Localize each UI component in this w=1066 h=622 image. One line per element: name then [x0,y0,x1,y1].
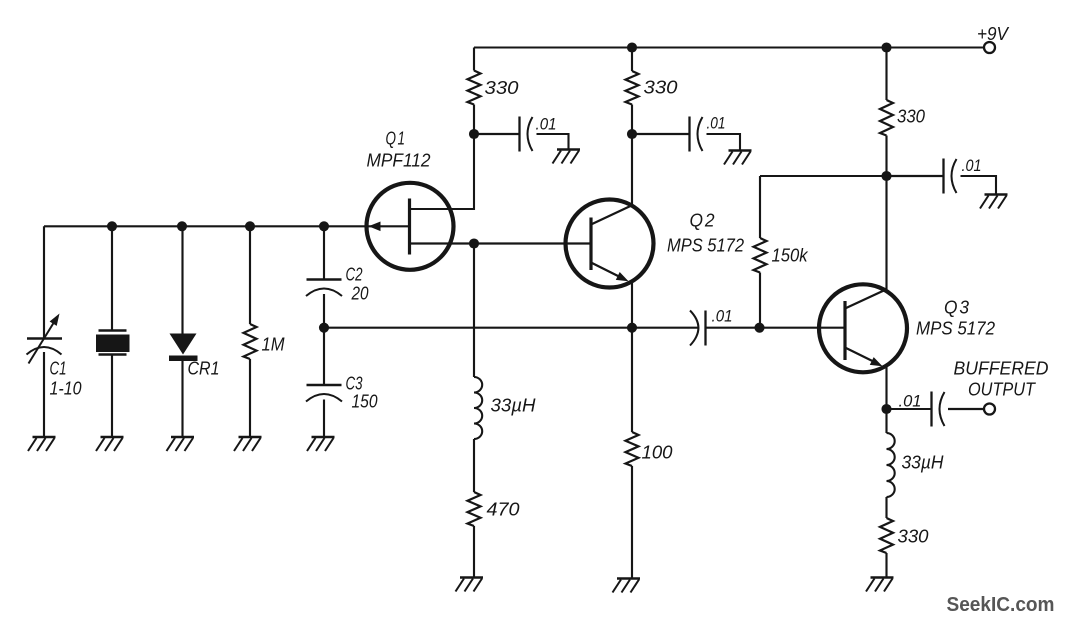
ground CR1 [167,437,195,451]
diode CR1 [169,334,198,362]
label CR1 [188,359,220,379]
svg-text:Q2: Q2 [690,211,717,231]
label Q3 MPS5172 [916,319,995,339]
label C7 .01 [962,156,982,175]
node Q1 source junction [469,238,479,248]
C1 arrow head [50,314,60,326]
svg-text:1M: 1M [262,335,285,355]
wire L1 to R5 [473,439,475,492]
wire Q1 source to Q2 base [474,242,591,244]
ground C6 [724,151,752,165]
label OUTPUT [968,380,1037,400]
transistor Q3 circle [819,284,907,372]
Q1 source lead [410,242,475,244]
wire rail corner to R1 [473,48,475,71]
wire emitter to L2 [885,409,887,433]
wire node to C7 [887,175,944,177]
wire Q1 drain [410,134,475,209]
wire R6 top [759,176,761,238]
resistor R5 470 [468,492,481,526]
wire bus to CR1 [181,226,183,334]
transistor Q1 circle [367,183,454,270]
label C5 .01 [712,307,733,326]
wire Q2 collector [631,134,633,206]
label L2 33µH [902,453,945,473]
Q1 gate wire [367,225,410,227]
ground crystal [96,437,124,451]
wire C1 to ground [43,352,45,437]
wire Q3 collector [885,176,887,291]
label R2 330 [644,78,678,98]
svg-text:.01: .01 [899,392,922,411]
label R6 150k [772,246,809,266]
wire node to C4 [474,133,519,135]
label C2 [346,265,363,285]
node bus-CR1 [177,221,187,231]
Q3 emitter arrow [870,357,883,366]
inductor L2 33uH [887,433,895,497]
svg-text:Q1: Q1 [386,129,407,149]
wire R4 to ground [249,359,251,437]
ground R5 [456,578,484,592]
resistor R4 1M [244,324,257,359]
capacitor C4 .01 bypass [520,117,533,152]
svg-text:150k: 150k [772,246,809,266]
label R5 470 [487,500,520,520]
label Q2 [690,211,717,231]
svg-text:1-10: 1-10 [50,379,82,399]
label R7 100 [642,443,673,463]
node feedback-R6 junction [754,323,764,333]
resistor R3 330 [880,100,893,136]
svg-text:330: 330 [485,78,519,98]
wire bus to crystal [111,226,113,330]
wire C8 to output [948,408,985,410]
wire +9V supply rail [474,46,985,48]
Q2 collector lead [591,206,632,225]
label C3 value 150 [352,392,378,412]
svg-text:C1: C1 [50,359,67,379]
resistor R1 330 [468,71,481,105]
wire C4 to ground [537,134,569,149]
label C3 [346,374,363,394]
Q1 channel bar [408,199,411,255]
crystal Y1 [96,331,130,355]
svg-text:MPS 5172: MPS 5172 [667,236,744,256]
label Q2 MPS5172 [667,236,744,256]
wire R6 bottom [759,273,761,328]
wire C5 to Q3 base [706,327,846,329]
wire R6 to node [760,175,887,177]
wire feedback [324,327,698,329]
wire R1 to node [473,105,475,135]
wire emitter to R7 [631,328,633,432]
label C8 .01 [899,392,922,411]
wire C2 to C3 [323,294,325,385]
ground C3 [307,437,335,451]
svg-text:+9V: +9V [977,24,1010,44]
label C1 [50,359,67,379]
svg-text:.01: .01 [536,115,557,134]
wire R5 to ground [473,526,475,577]
terminal +9V [984,42,995,53]
node rail-R2 junction [627,42,637,52]
label Q3 [944,298,971,318]
svg-text:470: 470 [487,500,520,520]
wire R2 to node [631,105,633,135]
svg-text:MPS 5172: MPS 5172 [916,319,995,339]
svg-text:CR1: CR1 [188,359,220,379]
node rail-R3 junction [881,42,891,52]
Q1 gate arrow [369,222,381,232]
node Q2 collector junction [627,129,637,139]
wire R3 to node [885,136,887,177]
Q2 emitter lead [591,263,624,280]
C1 arrow shaft [29,319,57,364]
wire C3 to ground [323,400,325,437]
resistor R6 150k [754,238,767,273]
label C1 value 1-10 [50,379,82,399]
ground C1 [28,437,56,451]
label R1 330 [485,78,519,98]
svg-text:330: 330 [898,527,929,547]
svg-text:33µH: 33µH [902,453,945,473]
resistor R2 330 [626,71,639,105]
ground R8 [866,578,894,592]
inductor L1 33uH [474,377,482,439]
wire rail to R2 [631,48,633,72]
svg-text:330: 330 [644,78,678,98]
ground R4 [234,437,262,451]
wire C7 to ground [961,176,997,194]
label C2 value 20 [351,284,369,304]
node bus-C2 [319,221,329,231]
label Q1 [386,129,407,149]
Q3 emitter lead [845,348,879,365]
label Q1 MPF112 [367,151,431,171]
terminal buffered output [984,404,995,415]
node bus-crystal [107,221,117,231]
Q2 base bar [589,218,592,271]
svg-text:C3: C3 [346,374,363,394]
transistor Q2 circle [566,200,654,288]
wire crystal to ground [111,356,113,437]
Q2 emitter arrow [616,272,629,281]
resistor R8 330 [880,518,893,553]
svg-text:.01: .01 [707,114,726,133]
label L1 33µH [491,396,537,416]
svg-text:330: 330 [897,107,925,127]
svg-text:SeekIC.com: SeekIC.com [947,594,1055,616]
node Q1 drain junction [469,129,479,139]
wire source down [473,244,475,378]
wire L2 to R8 [885,497,887,518]
capacitor C6 .01 bypass [690,117,703,152]
label BUFFERED [954,359,1049,379]
label C6 .01 [707,114,726,133]
svg-text:150: 150 [352,392,378,412]
capacitor C3 [306,385,342,402]
capacitor C8 .01 output [887,392,945,427]
node C2-C3 junction [319,323,329,333]
capacitor C5 .01 coupling [690,311,706,346]
label R3 330 [897,107,925,127]
label C4 .01 [536,115,557,134]
svg-text:BUFFERED: BUFFERED [954,359,1049,379]
wire R7 to ground [631,466,633,578]
label R8 330 [898,527,929,547]
svg-text:.01: .01 [962,156,982,175]
resistor R7 100 [626,432,639,466]
svg-text:20: 20 [351,284,369,304]
wire Q2 emitter down [631,282,633,328]
wire rail to R3 [885,48,887,101]
ground C7 [980,195,1008,209]
label R4 1M [262,335,285,355]
node Q3 collector junction [881,171,891,181]
capacitor C1 variable [27,339,63,355]
wire bus to R4 [249,226,251,324]
node bus-R4 [245,221,255,231]
svg-text:MPF112: MPF112 [367,151,431,171]
ground R7 [613,579,641,593]
svg-text:33µH: 33µH [491,396,537,416]
capacitor C7 .01 bypass [944,159,957,194]
wire Q3 emitter down [885,366,887,409]
svg-text:Q3: Q3 [944,298,971,318]
wire CR1 to ground [181,361,183,437]
wire C6 to ground [707,134,741,150]
watermark SeekIC.com [947,594,1055,616]
Q3 collector lead [845,290,886,309]
wire bus to C1 [43,226,45,337]
node Q3 emitter junction [881,404,891,414]
ground C4 [553,150,581,164]
wire gate bus [44,225,367,227]
wire node to C6 [632,133,689,135]
wire R8 to ground [885,553,887,577]
node Q2 emitter junction [627,323,637,333]
svg-text:100: 100 [642,443,673,463]
capacitor C2 [306,280,342,297]
svg-text:.01: .01 [712,307,733,326]
svg-text:C2: C2 [346,265,363,285]
wire bus to C2 [323,226,325,279]
label +9V [977,24,1010,44]
Q3 base bar [843,301,846,360]
svg-text:OUTPUT: OUTPUT [968,380,1037,400]
